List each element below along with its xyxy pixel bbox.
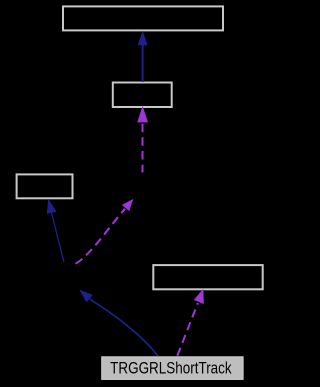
node: right class box — [153, 265, 262, 289]
svg-text:TRGGRLShortTrack: TRGGRLShortTrack — [110, 359, 232, 378]
edge E6: dashed usage arrow, bottom box up to right box — [177, 289, 204, 356]
node: second class box — [113, 83, 172, 108]
edge E5: solid inheritance arrow, bottom box up-left to invisible node — [79, 290, 158, 356]
node: top class box (text invisible on dark bg) — [63, 6, 223, 30]
node: left class box — [17, 174, 73, 198]
node: TRGGRLShortTrack (current class, grey filled) — [102, 357, 243, 380]
edge E4: solid inheritance arrow, up into left box — [47, 199, 64, 262]
edge E1: solid inheritance arrow, second box -> top box — [138, 31, 148, 82]
edge E2: dashed usage arrow, up into second box — [137, 106, 148, 173]
edge E3: dashed usage arrow, diagonal up-right to invisible node — [76, 199, 134, 264]
